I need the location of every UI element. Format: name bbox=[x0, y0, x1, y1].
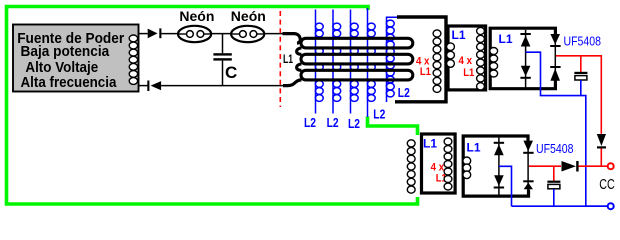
diode bridge1 bottom-right bbox=[550, 66, 560, 68]
winding on source box output bbox=[129, 35, 137, 84]
L2 pickup coil 3 bbox=[350, 10, 358, 114]
wire red positive of rectifier 2 bbox=[529, 165, 561, 167]
diode bridge2 bottom-left bbox=[494, 175, 504, 186]
L2 pickup coil 1 bbox=[315, 10, 323, 114]
wire red filter cap 1 lead bbox=[580, 56, 582, 72]
diode bridge1 top-right bbox=[550, 45, 560, 47]
diode D2 bbox=[147, 81, 149, 92]
wire red filter cap 2 lead bbox=[553, 166, 555, 181]
svg-text:CC: CC bbox=[599, 176, 615, 193]
wire green loop (L2 secondary circuit border) bbox=[7, 7, 418, 205]
T3 secondary winding bbox=[444, 138, 452, 190]
wire red to positive terminal bbox=[579, 165, 608, 167]
coil L1 entry hook bbox=[283, 34, 301, 44]
coil L1 turn 1 bbox=[301, 38, 413, 48]
filter capacitor 2 bbox=[547, 181, 560, 183]
rectifier unit 1 box bbox=[490, 28, 555, 88]
wire blue cap 1 to negative bbox=[580, 80, 582, 95]
wire neon2 to coil L1 bbox=[264, 33, 284, 35]
neon lamp 2 bbox=[231, 26, 264, 42]
diode bridge2 top-right bbox=[523, 141, 533, 152]
svg-text:L1: L1 bbox=[463, 67, 474, 79]
svg-text:L1: L1 bbox=[451, 28, 465, 42]
L2 pickup coil 4 (connected to green loop) bbox=[367, 8, 375, 117]
wire top from source bbox=[139, 33, 148, 35]
wire green connector L2 coil to lower transformer bbox=[368, 117, 418, 136]
T1 secondary winding bbox=[433, 30, 441, 93]
T2 primary winding bbox=[447, 43, 455, 67]
T2 secondary winding bbox=[477, 27, 485, 90]
coil L1 turn 3 bbox=[301, 70, 413, 80]
svg-text:UF5408: UF5408 bbox=[564, 35, 602, 49]
coil L1 exit hook bbox=[283, 80, 302, 86]
negative output terminal bbox=[608, 203, 614, 209]
coil L1 link hook 2 bbox=[297, 64, 302, 70]
diode bridge1 top-left bbox=[520, 33, 530, 35]
svg-text:L2: L2 bbox=[348, 116, 360, 131]
positive output terminal bbox=[608, 163, 614, 169]
transformer T3 core box (lower) bbox=[422, 134, 456, 193]
L2 pickup coil 2 bbox=[333, 10, 341, 114]
svg-text:L1: L1 bbox=[283, 54, 293, 66]
rectifier unit 2 box (lower) bbox=[463, 136, 528, 196]
diode bridge1 bottom-left bbox=[521, 66, 531, 77]
wire to first neon bbox=[161, 33, 178, 35]
neon lamp 1 bbox=[178, 26, 211, 42]
svg-text:Neón: Neón bbox=[231, 8, 266, 24]
rectifier 1 left branch wire bbox=[525, 30, 527, 88]
rectifier 1 right branch wire bbox=[554, 30, 556, 87]
coil L1 turn 2 bbox=[301, 54, 413, 64]
svg-text:Baja potencia: Baja potencia bbox=[21, 43, 110, 60]
svg-text:L2: L2 bbox=[398, 85, 410, 100]
power source box bbox=[13, 25, 139, 92]
wire bottom return bbox=[139, 85, 147, 87]
transformer T1 core box bbox=[395, 17, 446, 102]
diode D1 bbox=[148, 29, 158, 39]
red dashed separation line bbox=[279, 11, 281, 107]
svg-text:UF5408: UF5408 bbox=[536, 142, 574, 156]
wire blue negative bus to terminal bbox=[512, 205, 609, 207]
svg-text:L1: L1 bbox=[498, 32, 512, 46]
svg-text:Alta frecuencia: Alta frecuencia bbox=[21, 74, 117, 91]
svg-text:L1: L1 bbox=[466, 140, 480, 154]
rectifier 2 left branch wire bbox=[498, 138, 500, 195]
svg-text:L2: L2 bbox=[373, 107, 385, 122]
wire red positive of rectifier 1 bbox=[556, 56, 601, 134]
coil L1 link hook 1 bbox=[297, 48, 302, 54]
rectifier 1 input winding bbox=[490, 48, 498, 78]
svg-text:L2: L2 bbox=[304, 115, 316, 130]
svg-text:L1: L1 bbox=[423, 137, 437, 151]
wire blue negative of rectifier 1 bbox=[526, 52, 608, 206]
capacitor C bbox=[222, 34, 224, 54]
rectifier 2 input winding bbox=[463, 157, 471, 179]
svg-text:L2: L2 bbox=[327, 115, 339, 130]
svg-text:4 x: 4 x bbox=[459, 55, 473, 67]
wire blue cap 2 to negative bbox=[553, 189, 555, 206]
rectifier 2 right branch wire bbox=[527, 137, 529, 195]
diode bridge2 bottom-right bbox=[523, 180, 533, 182]
wire neon1 to neon2 bbox=[211, 33, 231, 35]
svg-text:L1: L1 bbox=[420, 66, 431, 78]
transformer T2 core box bbox=[448, 26, 486, 90]
L2 winding of transformer T1 (coil 5) bbox=[386, 17, 397, 102]
svg-text:C: C bbox=[225, 63, 237, 82]
svg-text:Neón: Neón bbox=[179, 8, 214, 24]
wire blue negative of rectifier 2 bbox=[499, 166, 512, 206]
output series diode bbox=[562, 161, 577, 172]
T3 primary winding (on green loop) bbox=[407, 140, 415, 193]
series diode on positive rail bbox=[597, 134, 606, 146]
filter capacitor 1 bbox=[574, 72, 587, 74]
diode bridge2 top-left bbox=[494, 142, 504, 144]
